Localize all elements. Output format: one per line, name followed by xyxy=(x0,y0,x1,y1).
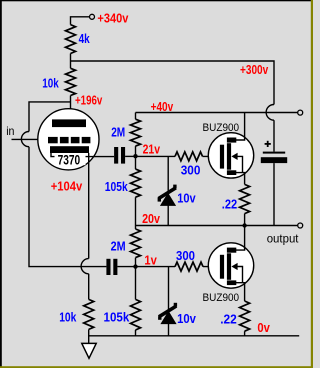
label BUZ900 upper xyxy=(203,122,240,134)
svg-text:4k: 4k xyxy=(79,32,90,46)
wire ground stub xyxy=(88,329,90,343)
transistor Q2 gate bar xyxy=(220,255,224,279)
label .22 lower xyxy=(220,312,237,326)
transistor Q2 body arrow xyxy=(231,263,237,270)
wire output/20v rail xyxy=(136,225,298,227)
transistor Q2 channel bar xyxy=(227,253,231,279)
wire 2M1 top lead xyxy=(135,113,137,120)
svg-text:20v: 20v xyxy=(142,212,160,226)
wire feedback vertical down xyxy=(29,147,106,267)
label BUZ900 lower xyxy=(203,292,240,304)
svg-text:21v: 21v xyxy=(143,143,160,157)
wire C1 to junction xyxy=(125,155,135,157)
capacitor C2 xyxy=(106,259,117,275)
label +104v xyxy=(51,180,83,194)
resistor .22 upper xyxy=(240,184,250,213)
label 2M upper xyxy=(111,126,125,140)
resistor 300 lower xyxy=(175,262,203,271)
wire +40v rail xyxy=(136,112,298,114)
wire hop: signal2 under cathode lead xyxy=(81,259,89,274)
resistor 105k lower lead xyxy=(135,267,137,300)
label 10v lower xyxy=(177,312,196,326)
wire input xyxy=(12,138,49,140)
svg-text:105k: 105k xyxy=(104,311,130,325)
resistor 4k xyxy=(66,25,76,54)
svg-text:.22: .22 xyxy=(222,198,237,212)
svg-text:+104v: +104v xyxy=(51,180,83,194)
label +196v xyxy=(75,93,102,107)
transistor Q1 body lead xyxy=(237,156,243,172)
tube V1 7370 envelope xyxy=(38,109,99,170)
label 20v xyxy=(142,212,160,226)
node dot junction2 xyxy=(133,264,137,268)
transistor Q1 BUZ900 envelope xyxy=(208,133,253,178)
svg-text:2M: 2M xyxy=(111,239,126,253)
wire 4k to 10k with +300v tap xyxy=(70,54,72,69)
node dot junction1 xyxy=(133,154,137,158)
wire junction1 to 300 xyxy=(136,155,176,157)
svg-text:10k: 10k xyxy=(42,76,59,90)
svg-text:105k: 105k xyxy=(105,180,128,194)
label output xyxy=(267,232,299,246)
zener D1 10v xyxy=(158,185,176,206)
label in xyxy=(6,124,14,138)
svg-text:300: 300 xyxy=(176,249,195,263)
wire cathode lead to 10k xyxy=(88,274,90,300)
label 105k upper xyxy=(105,180,128,194)
svg-text:10v: 10v xyxy=(177,312,196,326)
label 10k lower xyxy=(59,311,76,325)
tube V1 grid dashes xyxy=(48,137,90,143)
svg-text:2M: 2M xyxy=(111,126,125,140)
label 21v xyxy=(143,143,160,157)
node dot output/drain2 xyxy=(242,223,246,227)
resistor 105k upper lead xyxy=(135,156,137,169)
resistor .22 lower xyxy=(240,301,250,336)
zener D1 lead xyxy=(167,156,169,225)
label 0v xyxy=(257,321,270,335)
wire cathode down lead xyxy=(88,153,90,259)
wire 300-2 to gate xyxy=(203,266,220,268)
label 4k xyxy=(79,32,90,46)
svg-text:300: 300 xyxy=(181,163,201,177)
wire 0v rail xyxy=(89,335,300,337)
svg-text:+340v: +340v xyxy=(97,11,128,25)
svg-text:+196v: +196v xyxy=(75,93,102,107)
svg-text:10k: 10k xyxy=(59,311,76,325)
terminal output xyxy=(298,223,303,228)
wire hop: +300v over +40v rail xyxy=(266,105,274,121)
label 300 lower xyxy=(176,249,195,263)
label +40v xyxy=(151,100,174,114)
svg-text:10v: 10v xyxy=(177,192,195,206)
resistor 105k lower xyxy=(131,299,141,335)
svg-text:.22: .22 xyxy=(220,312,237,326)
label +300v xyxy=(240,63,268,77)
label .22 upper xyxy=(222,198,237,212)
resistor 10k lower xyxy=(84,299,94,329)
transistor Q1 source pad xyxy=(227,170,236,175)
wire C2 to junction2 xyxy=(117,266,135,268)
transistor Q2 body lead xyxy=(237,267,243,283)
transistor Q2 drain lead xyxy=(234,226,245,251)
svg-text:output: output xyxy=(267,232,299,246)
label 10k upper xyxy=(42,76,59,90)
label 300 upper xyxy=(181,163,201,177)
wire anode node xyxy=(70,96,72,120)
svg-text:+40v: +40v xyxy=(151,100,174,114)
ground xyxy=(82,343,96,358)
wire hop: feedback over input xyxy=(21,132,29,147)
resistor 300 upper xyxy=(175,152,203,161)
terminal +40v xyxy=(298,110,303,115)
resistor 2M lower xyxy=(131,226,141,267)
svg-text:+300v: +300v xyxy=(240,63,268,77)
wire .22-1 bottom lead xyxy=(244,214,246,226)
transistor Q1 source lead xyxy=(234,173,245,185)
zener D2 10v xyxy=(159,303,177,324)
transistor Q1 gate bar xyxy=(220,145,224,169)
svg-text:1v: 1v xyxy=(144,253,156,267)
capacitor C1 xyxy=(114,147,125,164)
capacitor C3 electrolytic xyxy=(261,141,287,163)
wire +300v to cap xyxy=(273,120,275,151)
transistor Q2 drain pad xyxy=(227,248,236,253)
wire junction2 to 300-2 xyxy=(136,266,176,268)
svg-text:BUZ900: BUZ900 xyxy=(203,122,240,134)
wire cathode jog inside tube xyxy=(51,153,114,157)
transistor Q1 drain lead xyxy=(234,113,245,141)
label 10v upper xyxy=(177,192,195,206)
wire cap to output rail xyxy=(273,163,275,225)
svg-text:in: in xyxy=(6,124,14,138)
label 2M lower xyxy=(111,239,126,253)
label 1v xyxy=(144,253,156,267)
wire feedback top link xyxy=(29,102,71,132)
tube V1 anode plate xyxy=(52,119,86,127)
transistor Q2 BUZ900 envelope xyxy=(208,243,253,288)
svg-text:0v: 0v xyxy=(257,321,270,335)
resistor 2M upper xyxy=(131,119,141,146)
wire 2M1 bottom lead xyxy=(135,146,137,156)
resistor 105k upper xyxy=(131,169,141,197)
svg-text:BUZ900: BUZ900 xyxy=(203,292,240,304)
transistor Q1 body arrow xyxy=(231,153,237,160)
label 7370 xyxy=(55,152,86,167)
tube V1 cathode bar xyxy=(50,146,89,153)
zener D2 lead xyxy=(168,267,170,336)
transistor Q2 source pad xyxy=(227,280,236,285)
resistor 10k upper xyxy=(66,68,76,95)
wire 300-1 to gate xyxy=(203,155,221,157)
svg-text:7370: 7370 xyxy=(58,152,81,167)
wire +340v stub to terminal xyxy=(71,17,90,25)
transistor Q1 channel bar xyxy=(227,143,231,170)
wire 105k1 bottom lead xyxy=(135,197,137,225)
terminal +340v xyxy=(90,14,95,19)
label +340v xyxy=(97,11,128,25)
wire +300v rail xyxy=(71,61,275,105)
transistor Q2 source lead xyxy=(234,283,245,301)
label 105k lower xyxy=(104,311,130,325)
transistor Q1 drain pad xyxy=(227,138,236,143)
